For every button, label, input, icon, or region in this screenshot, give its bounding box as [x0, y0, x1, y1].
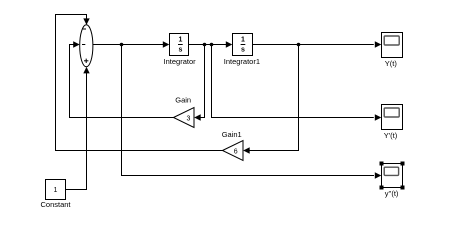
wire: Gain feedback to Sum left input	[70, 41, 174, 117]
wire: y branch down-left into Gain1 input	[243, 45, 298, 154]
wire: Integrator1 output to Scope Y(t)	[253, 41, 382, 47]
selection handles on scope y''(t)	[380, 162, 405, 190]
constant block Constant (value 1)	[40, 180, 71, 210]
svg-text:Integrator: Integrator	[164, 57, 197, 66]
integrator block Integrator	[164, 34, 197, 67]
svg-text:Gain1: Gain1	[222, 130, 242, 139]
wire: Sum output to Integrator	[93, 41, 169, 47]
scope block y''(t) (selected)	[382, 164, 403, 199]
wire: y'' branch down to Scope y''(t)	[122, 45, 382, 179]
gain block Gain (value 3)	[174, 96, 195, 128]
scope block Y'(t)	[382, 105, 403, 141]
svg-text:3: 3	[187, 116, 191, 123]
svg-text:s: s	[178, 46, 182, 53]
svg-text:Integrator1: Integrator1	[224, 57, 260, 66]
svg-text:Gain: Gain	[175, 96, 191, 105]
wire: Constant to Sum bottom input	[66, 67, 90, 190]
integrator block Integrator1	[224, 34, 260, 67]
svg-text:s: s	[241, 46, 245, 53]
wire: Integrator output to Integrator1	[189, 41, 233, 47]
sum block Sum	[80, 25, 93, 67]
scope block Y(t)	[382, 33, 403, 69]
svg-text:y''(t): y''(t)	[385, 189, 399, 198]
svg-text:6: 6	[234, 149, 238, 156]
svg-text:Constant: Constant	[40, 200, 71, 209]
svg-text:1: 1	[178, 36, 182, 43]
svg-text:Y(t): Y(t)	[385, 59, 398, 68]
svg-text:1: 1	[241, 36, 245, 43]
wire: Gain1 feedback to Sum top input	[56, 15, 223, 151]
svg-text:1: 1	[54, 187, 58, 194]
junction: y' branch to Gain	[203, 43, 207, 47]
wire: y' branch down-left into Gain input	[194, 45, 204, 121]
junction: y branch to Gain1	[297, 43, 301, 47]
junction: y' branch to Scope Y'(t)	[210, 43, 214, 47]
wire: y' branch down-right to Scope Y'(t)	[212, 45, 382, 121]
gain block Gain1 (value 6)	[222, 130, 243, 161]
svg-text:Y'(t): Y'(t)	[384, 131, 398, 140]
junction on sum output wire	[120, 43, 124, 47]
